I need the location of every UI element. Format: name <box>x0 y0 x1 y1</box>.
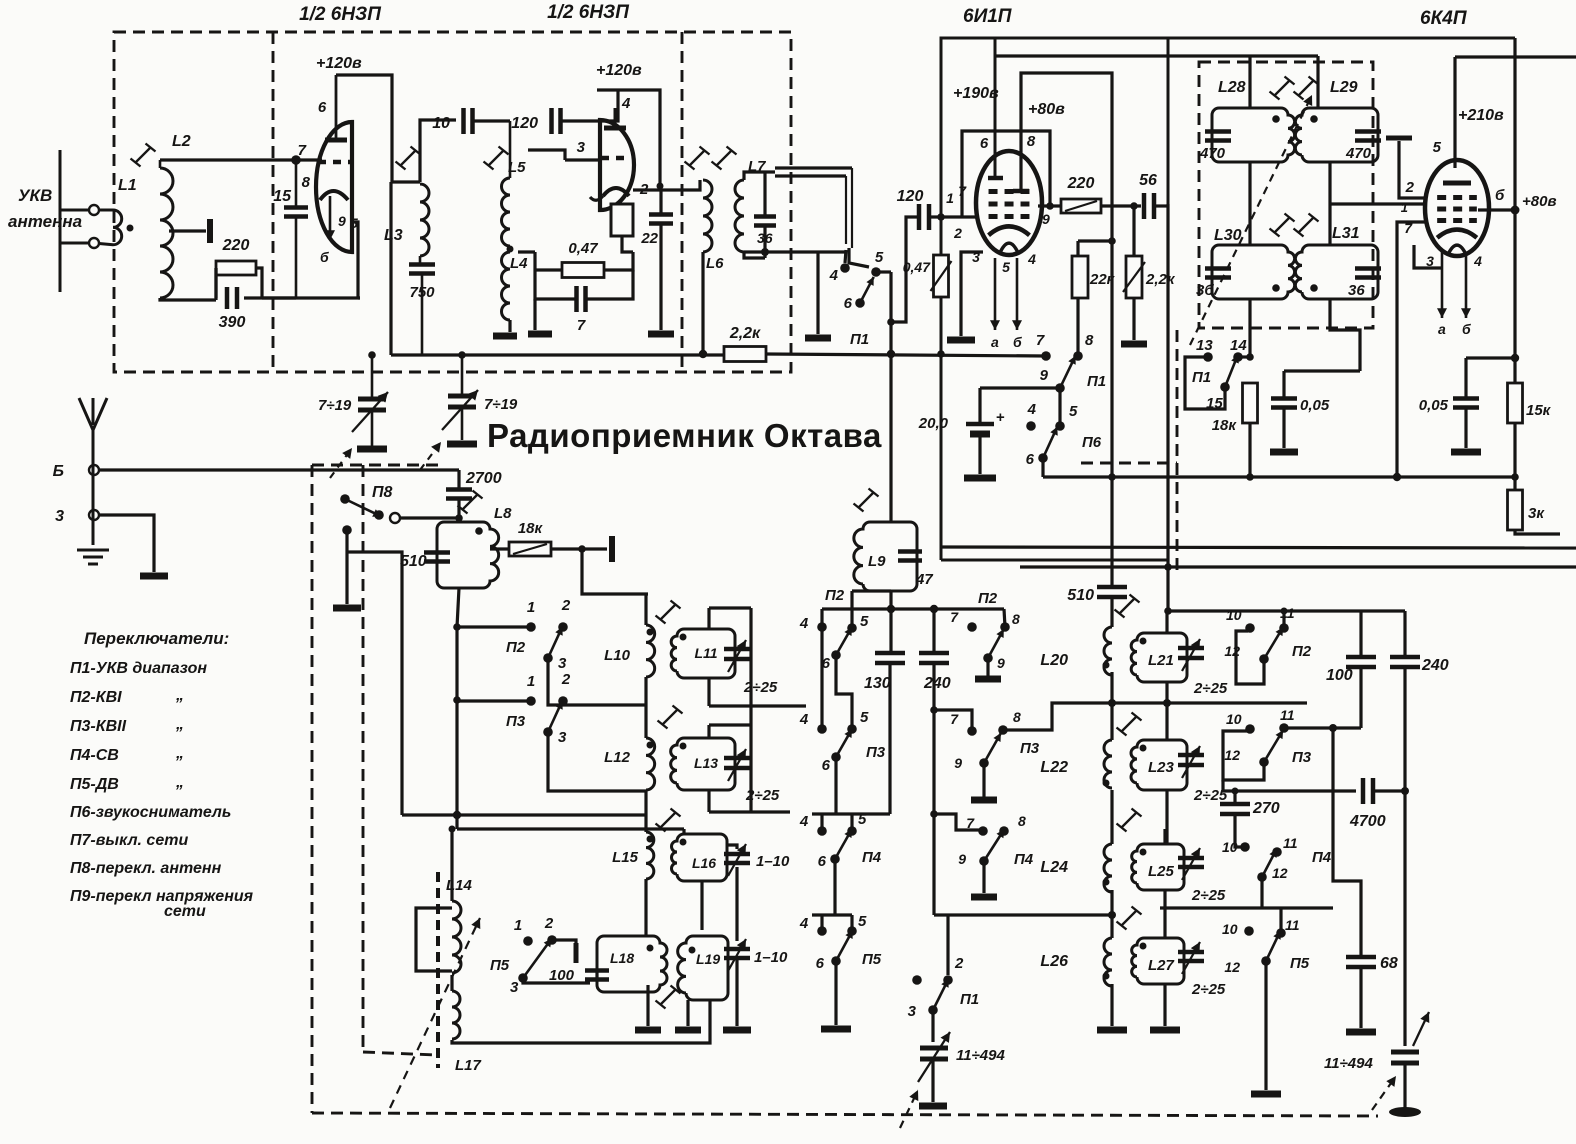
wire 240 bottom <box>932 663 935 915</box>
svg-text:8: 8 <box>1027 133 1036 150</box>
svg-text:П2: П2 <box>506 639 526 656</box>
magnetic core dashed L14/L17 <box>436 872 440 1068</box>
contact 9 P4m <box>979 856 989 866</box>
capacitor 68 <box>1346 957 1376 967</box>
wire trim1 stem bottom <box>371 410 374 446</box>
wire bus 548 <box>941 547 1576 548</box>
junction row915 L26 <box>1108 911 1116 919</box>
trimmer mark L10 <box>656 601 681 624</box>
junction 240col 814 <box>930 810 938 818</box>
wire UKV bottom rail left <box>391 353 420 356</box>
junction pin9 screen <box>1046 202 1054 210</box>
wire P5r-12 down <box>1264 961 1267 1090</box>
wire P3m 8 up <box>1003 703 1110 730</box>
terminal dot L29 <box>1310 115 1318 123</box>
wire pin9 out <box>1038 204 1061 207</box>
wire P2Lb-4 stub <box>820 609 823 627</box>
wire bus 815 <box>402 813 646 816</box>
trimmer capacitor 7-19 right <box>448 396 476 407</box>
wire 0,05R bottom <box>1464 408 1467 448</box>
svg-text:П3: П3 <box>1292 749 1312 766</box>
IF transformer L29 <box>1295 108 1378 162</box>
IF transformer dashed box <box>1199 62 1373 328</box>
svg-text:18к: 18к <box>1212 417 1238 434</box>
contact 6 P4a <box>830 854 840 864</box>
junction rail L9 column <box>887 350 895 358</box>
svg-text:L8: L8 <box>494 505 512 522</box>
wire cap120g left tap <box>891 217 918 322</box>
svg-text:3: 3 <box>510 979 519 996</box>
wire P5a-4 stub <box>820 915 823 931</box>
trimmer mark L31 <box>1294 214 1319 237</box>
svg-text:100: 100 <box>1326 667 1353 684</box>
coil L23 <box>1131 740 1187 790</box>
svg-text:Переключатели:: Переключатели: <box>84 629 229 648</box>
trimmer mark L9 <box>854 489 879 512</box>
capacitor 20,0 electrolytic <box>966 424 994 434</box>
wire +120v rail <box>336 75 392 182</box>
svg-text:а: а <box>991 334 999 350</box>
svg-text:П5-ДВ: П5-ДВ <box>70 776 119 793</box>
wire row703 to L22 <box>1110 703 1113 740</box>
contact 15 <box>1220 382 1230 392</box>
inductor L17 <box>452 991 460 1039</box>
terminal dot L21 <box>1140 638 1147 645</box>
contact 5 P4a <box>847 826 857 836</box>
junction pin7 avc <box>1393 473 1401 481</box>
svg-text:7: 7 <box>298 142 307 159</box>
triode V1 cathode <box>320 191 348 200</box>
contact 5 P3Lb <box>847 724 857 734</box>
svg-text:L25: L25 <box>1148 863 1175 880</box>
wire row 706 <box>709 704 806 707</box>
capacitor 750 <box>409 265 435 274</box>
resistor 15k <box>1508 383 1523 423</box>
contact 12 P5r <box>1261 956 1271 966</box>
terminal dot L11 <box>680 634 687 641</box>
junction 1112 avc <box>1108 473 1116 481</box>
svg-text:1: 1 <box>527 673 535 690</box>
wire P2L 3 down <box>548 658 646 705</box>
switch P2L <box>548 627 562 658</box>
contact P8 d <box>342 525 352 535</box>
trimmer mark L19 <box>656 986 681 1009</box>
svg-text:7÷19: 7÷19 <box>484 396 518 413</box>
wire 18k bottom <box>1248 422 1251 477</box>
contact 10 P3r <box>1245 724 1255 734</box>
svg-text:L27: L27 <box>1148 957 1175 974</box>
variable capacitor 2-25 L11 <box>724 649 750 659</box>
wire R right to node <box>604 252 633 270</box>
IF transformer L28 <box>1212 108 1295 162</box>
wire L18 g1 <box>646 985 649 1026</box>
svg-text:П1-УКВ диапазон: П1-УКВ диапазон <box>70 660 207 677</box>
junction grid leak bottom <box>937 350 945 358</box>
switch P2r <box>1264 627 1283 659</box>
inductor L15 <box>646 832 654 879</box>
junction 15k avc <box>1511 473 1519 481</box>
wire L3 to 750 <box>419 256 422 264</box>
svg-text:П5: П5 <box>1290 955 1310 972</box>
svg-text:L31: L31 <box>1332 225 1360 242</box>
contact 2 P1d <box>943 975 953 985</box>
svg-text:„: „ <box>175 716 184 733</box>
capacitor 100 L18 <box>585 971 609 980</box>
wire grid tap to L5 mid <box>528 150 565 160</box>
wire 22k bottom <box>1076 298 1079 352</box>
contact 12 P4r <box>1257 872 1267 882</box>
wire coax top plate <box>775 166 852 169</box>
svg-text:П4: П4 <box>862 849 882 866</box>
wire P4a-4 stub <box>820 814 823 831</box>
resistor 220 anode <box>1061 199 1101 213</box>
capacitor 47 <box>898 552 922 561</box>
mech dashed link trim1 <box>330 448 352 478</box>
junction L14 top <box>449 826 456 833</box>
wire L7 bottom <box>744 252 765 258</box>
contact 11 P5r <box>1276 928 1286 938</box>
trimmer arrow 2 <box>442 390 478 430</box>
ground coax shield <box>805 335 831 342</box>
svg-text:L26: L26 <box>1040 953 1068 970</box>
wire 750 down <box>421 274 424 355</box>
contact 12 P2r <box>1259 654 1269 664</box>
wire chain mid2 <box>644 790 647 832</box>
chassis V4 g2 <box>1386 136 1412 141</box>
terminal dot L31 <box>1310 284 1318 292</box>
svg-text:+80в: +80в <box>1522 193 1557 210</box>
coil L25 <box>1132 844 1184 890</box>
ground 68 <box>1346 1029 1376 1036</box>
junction 815 busA <box>453 811 461 819</box>
wire P3L 1 <box>457 699 531 702</box>
svg-text:П6-звукосниматель: П6-звукосниматель <box>70 804 231 821</box>
junction 15k top <box>1511 354 1519 362</box>
svg-text:П6: П6 <box>1082 434 1102 451</box>
wire top bus to 1515 <box>1513 38 1516 477</box>
ground under cap7 node <box>528 331 552 338</box>
wire RC node stem <box>533 299 536 330</box>
trimmer capacitor 7-19 left <box>358 399 386 410</box>
wire 4700 right <box>1374 789 1405 792</box>
switch P1c <box>1225 355 1238 387</box>
capacitor 470 right <box>1355 132 1381 141</box>
contact 6 P1a <box>855 298 865 308</box>
ground L19 <box>675 1027 701 1034</box>
wire x1168 column <box>1166 204 1169 611</box>
contact 14 <box>1233 352 1243 362</box>
svg-text:L16: L16 <box>692 855 716 871</box>
contact 1 P2L <box>526 622 536 632</box>
svg-text:2÷25: 2÷25 <box>743 679 778 696</box>
chassis tap P5L <box>574 943 579 963</box>
wire chain mid1 <box>644 677 647 738</box>
svg-text:6: 6 <box>980 135 989 152</box>
wire L31 bottom <box>1330 299 1360 371</box>
chassis P8 <box>333 605 361 612</box>
trimmer mark L30 <box>1270 214 1295 237</box>
wire L19 g <box>686 1000 689 1026</box>
switch P1d <box>933 979 949 1010</box>
svg-text:9: 9 <box>958 851 966 867</box>
svg-text:1/2 6НЗП: 1/2 6НЗП <box>547 2 629 23</box>
junction 4700/240col <box>1401 787 1409 795</box>
terminal dot L24 <box>1103 879 1110 886</box>
svg-text:2,2к: 2,2к <box>729 325 761 342</box>
svg-text:0,47: 0,47 <box>568 240 598 257</box>
svg-text:L29: L29 <box>1330 79 1358 96</box>
wire 2700 top <box>457 470 460 490</box>
wire P6-6 down <box>1041 458 1044 477</box>
svg-text:П2: П2 <box>978 590 998 607</box>
wire P5r-11 stem <box>1279 908 1282 933</box>
contact 10 P2r <box>1245 623 1255 633</box>
contact 9 P1b <box>1055 383 1065 393</box>
svg-text:L18: L18 <box>610 950 634 966</box>
wire +210 rail <box>1455 55 1576 58</box>
svg-text:12: 12 <box>1224 959 1240 975</box>
coil L11 <box>671 629 735 678</box>
svg-text:1–10: 1–10 <box>754 949 788 966</box>
switch P1b <box>1060 356 1075 388</box>
contact P8 c <box>390 513 400 523</box>
wire pin3 bracket <box>1414 245 1442 268</box>
svg-text:47: 47 <box>915 571 933 588</box>
svg-text:„: „ <box>175 745 184 762</box>
inductor L5 <box>502 178 511 246</box>
IF transformer L31 <box>1295 245 1378 299</box>
ground P4m <box>971 894 997 901</box>
wire L2 top to tube grid row <box>160 158 322 161</box>
variable capacitor 2-25 L27 <box>1178 952 1204 961</box>
junction 18k top <box>1246 353 1254 361</box>
svg-text:П3: П3 <box>506 713 526 730</box>
wire row 915 <box>934 913 1112 916</box>
wire cap15 top <box>295 160 298 207</box>
svg-text:9: 9 <box>338 213 346 229</box>
wire L28 bottom to L30 <box>1248 162 1251 245</box>
svg-text:7: 7 <box>950 609 959 625</box>
svg-text:П4-СВ: П4-СВ <box>70 747 119 764</box>
wire L3/V2 coupling top <box>420 120 456 182</box>
wire osc feed down <box>582 549 648 594</box>
resistor 22k <box>1072 256 1088 298</box>
contact 6 P6 <box>1038 453 1048 463</box>
ground cap494 left <box>919 1103 947 1110</box>
svg-text:120: 120 <box>897 188 924 205</box>
wire right bus 751 <box>749 608 752 812</box>
contact 11 P3r <box>1279 723 1289 733</box>
svg-text:11÷494: 11÷494 <box>1324 1055 1373 1072</box>
wire 240 top <box>932 609 935 653</box>
contact 3 P2L <box>543 653 553 663</box>
wire row 812 <box>709 810 790 813</box>
svg-text:220: 220 <box>1067 175 1095 192</box>
svg-text:L30: L30 <box>1214 227 1242 244</box>
terminal dot L15 <box>647 836 654 843</box>
junction 240 bus <box>930 605 938 613</box>
svg-text:1: 1 <box>1401 200 1408 215</box>
switch P3r <box>1264 730 1283 762</box>
svg-text:8: 8 <box>302 174 311 191</box>
svg-text:П8-перекл. антенн: П8-перекл. антенн <box>70 860 222 877</box>
capacitor 4700 <box>1363 778 1373 804</box>
svg-text:220: 220 <box>222 237 250 254</box>
wire +210 drop <box>1453 57 1456 168</box>
svg-text:П1: П1 <box>960 991 979 1008</box>
junction L8 bus P3 <box>453 696 461 704</box>
wire P3m 9 gnd <box>982 763 985 797</box>
wire L6 bottom <box>701 252 704 355</box>
wire V3 cathode <box>961 252 983 336</box>
junction 18k avc <box>1246 473 1254 481</box>
wire L8 top entry <box>457 518 460 522</box>
svg-text:6: 6 <box>1026 451 1035 468</box>
svg-text:8: 8 <box>1012 611 1020 627</box>
wire 22k top <box>1076 241 1079 256</box>
wire row 727 <box>1284 726 1361 729</box>
wire x402 <box>347 552 402 815</box>
wire L22 to L24 <box>1110 790 1113 844</box>
trimmer mark L20 <box>1115 595 1140 618</box>
wire 20,0 bottom <box>978 436 981 474</box>
wire coax inner to contact 4 <box>845 250 846 263</box>
svg-text:L11: L11 <box>694 645 717 661</box>
contact 6 P5a <box>831 956 841 966</box>
wire V1 anode up <box>335 75 338 140</box>
svg-text:П4: П4 <box>1014 851 1034 868</box>
wire bus 609 <box>822 607 1004 610</box>
wire trim2 stem bottom <box>461 407 464 440</box>
wire L30 bottom <box>1248 299 1251 357</box>
variable capacitor 2-25 L13 <box>724 758 750 768</box>
ground L18 a <box>635 1027 661 1034</box>
pin 6 electrode bar <box>988 176 1003 181</box>
svg-text:510: 510 <box>400 553 427 570</box>
wire P5L 3 out <box>523 978 590 983</box>
switch P3m <box>984 733 1001 763</box>
wire L27 bottom <box>1163 984 1166 1026</box>
svg-text:5: 5 <box>860 613 869 630</box>
wire P8 lower <box>345 530 348 604</box>
svg-text:П5: П5 <box>862 951 882 968</box>
svg-text:4: 4 <box>1027 401 1037 418</box>
svg-text:4: 4 <box>1027 251 1036 267</box>
ground 2,2k <box>1121 341 1147 348</box>
svg-text:1: 1 <box>527 599 535 616</box>
coil L27 <box>1132 938 1184 984</box>
svg-text:120: 120 <box>511 115 538 132</box>
svg-text:+190в: +190в <box>953 85 999 102</box>
svg-text:3б: 3б <box>1196 282 1214 299</box>
wire L7 top to coax <box>744 172 775 180</box>
variable capacitor 11-494 right <box>1391 1052 1419 1063</box>
wire 9 down <box>1058 388 1061 426</box>
variable capacitor 1-10 upper <box>724 854 750 863</box>
wire L14 top <box>450 829 453 901</box>
svg-text:2: 2 <box>561 671 571 688</box>
svg-text:8: 8 <box>1018 813 1026 829</box>
mech link dashed 494L <box>900 1090 918 1128</box>
capacitor 240 mid <box>919 653 949 663</box>
wire cap494L bottom <box>931 1059 934 1102</box>
trimmer mark L12 <box>658 706 683 729</box>
junction L1 end <box>127 225 134 232</box>
svg-text:6: 6 <box>844 295 853 312</box>
wire L3 top tee <box>391 180 420 183</box>
contact 8 P3m <box>998 725 1008 735</box>
junction L5 L4 <box>507 246 514 253</box>
junction grid row <box>291 155 301 165</box>
wire L25 bottom <box>1163 890 1166 938</box>
capacitor 36 right <box>1355 269 1381 278</box>
contact 7 P4m <box>978 826 988 836</box>
svg-text:6К4П: 6К4П <box>1420 8 1467 29</box>
junction trim2 rail <box>458 351 466 359</box>
terminal B <box>89 465 99 475</box>
svg-text:L12: L12 <box>604 749 631 766</box>
contact 8 P2m <box>1000 622 1010 632</box>
wire chain top <box>644 594 647 625</box>
wire bus611 <box>1168 609 1284 612</box>
wire L16 cap link <box>727 845 737 849</box>
svg-text:4: 4 <box>799 615 809 632</box>
triode V1 grid dashes <box>318 160 350 165</box>
svg-text:+80в: +80в <box>1028 101 1065 118</box>
wire 0,05L rail <box>1284 369 1360 372</box>
terminal dot L8 <box>475 527 483 535</box>
wire P2r bracket <box>1236 631 1264 684</box>
svg-text:L4: L4 <box>510 255 528 272</box>
svg-text:5: 5 <box>858 913 867 930</box>
wire chain mid3 <box>644 879 647 936</box>
inductor L1 <box>99 210 122 245</box>
mech link dashed 494R <box>1372 1076 1396 1110</box>
svg-text:П2: П2 <box>825 587 845 604</box>
svg-text:П9-перекл напряжения: П9-перекл напряжения <box>70 888 254 905</box>
wire node up to pin1 box <box>622 236 633 252</box>
triode V2 anode lead <box>614 108 617 128</box>
wire row 814 <box>812 812 890 815</box>
svg-text:11: 11 <box>1285 917 1300 933</box>
inductor L14 <box>452 901 461 973</box>
ground 20,0 <box>964 475 996 482</box>
inductor L24 <box>1104 844 1112 892</box>
svg-text:12: 12 <box>1272 865 1288 881</box>
wire 0,05L top <box>1282 371 1285 398</box>
junction trim1 rail <box>368 351 376 359</box>
wire bottom rail UKV left <box>296 296 360 299</box>
wire 100r bottom <box>1359 667 1362 728</box>
capacitor 390 <box>227 287 237 309</box>
switch P5L <box>523 939 552 978</box>
svg-text:4: 4 <box>1473 253 1482 269</box>
wire L8 to 18k <box>490 547 509 550</box>
IF transformer L30 <box>1212 245 1295 299</box>
junction 80v/22k <box>1108 237 1116 245</box>
svg-text:2÷25: 2÷25 <box>1191 981 1226 998</box>
contact 8 P4m <box>999 826 1009 836</box>
wire L17 bottom rail <box>452 1000 710 1043</box>
wire 18k to tap <box>551 547 607 550</box>
terminal dot L27 <box>1140 943 1147 950</box>
wire P4m 9 gnd <box>982 861 985 893</box>
capacitor 22 <box>649 215 673 224</box>
wire P5L 2 tap <box>552 940 576 947</box>
svg-text:L2: L2 <box>172 133 191 150</box>
contact 11 P2r <box>1279 623 1289 633</box>
terminal dot L18 <box>647 945 654 952</box>
